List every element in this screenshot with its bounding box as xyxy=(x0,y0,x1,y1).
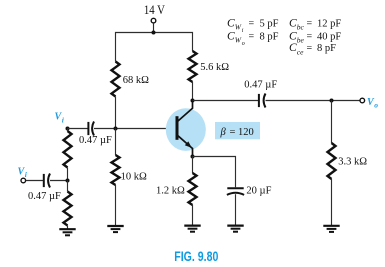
svg-text:68 kΩ: 68 kΩ xyxy=(123,75,149,86)
junction divider node xyxy=(66,179,70,183)
svg-text:W: W xyxy=(235,23,242,32)
ground (source divider) xyxy=(59,229,75,235)
svg-text:C: C xyxy=(289,30,297,42)
svg-text:3.3 kΩ: 3.3 kΩ xyxy=(338,157,367,168)
svg-text:be: be xyxy=(297,36,305,45)
resistor R1 68 kOhm xyxy=(112,62,150,97)
ground (R2) xyxy=(107,226,123,232)
wire RL to ground xyxy=(331,179,333,226)
capacitor Cs 0.47 uF (source) xyxy=(28,174,61,203)
resistor RL 3.3 kOhm xyxy=(328,143,368,179)
wire bypass cap to ground xyxy=(235,194,237,225)
resistor source divider upper xyxy=(64,129,72,181)
wire source terminal to source cap xyxy=(26,180,44,182)
svg-text:i: i xyxy=(62,116,65,125)
wire base node down xyxy=(115,129,117,156)
svg-text:1.2 kΩ: 1.2 kΩ xyxy=(156,186,185,197)
svg-text:8 pF: 8 pF xyxy=(260,31,279,42)
svg-text:=: = xyxy=(249,18,255,29)
value label Cbe = 40 pF xyxy=(289,30,341,44)
svg-text:0.47 µF: 0.47 µF xyxy=(28,191,61,202)
svg-text:=: = xyxy=(307,43,313,54)
wire RC bottom to collector node xyxy=(192,82,194,101)
wire RE to ground xyxy=(192,205,194,226)
wire Vi node to coupling cap xyxy=(68,128,89,130)
junction collector node xyxy=(191,99,195,103)
svg-text:C: C xyxy=(227,17,235,29)
value label CWo = 8 pF xyxy=(227,30,279,47)
svg-text:o: o xyxy=(374,101,378,110)
svg-text:FIG. 9.80: FIG. 9.80 xyxy=(174,248,218,264)
transistor Q1 highlight circle xyxy=(166,108,206,151)
value label Cce = 8 pF xyxy=(289,42,336,56)
ground (RL) xyxy=(323,226,339,232)
svg-text:=: = xyxy=(307,31,313,42)
resistor RC 5.6 kOhm xyxy=(189,51,230,82)
value label CWi = 5 pF xyxy=(227,17,279,34)
wire top supply rail xyxy=(116,33,193,62)
junction supply node xyxy=(152,31,156,35)
wire source cap to divider junction xyxy=(50,180,68,182)
svg-text:5 pF: 5 pF xyxy=(260,18,279,29)
junction output node xyxy=(330,99,334,103)
svg-text:o: o xyxy=(242,41,245,47)
node Vi (top of source divider) xyxy=(55,112,70,131)
svg-text:5.6 kΩ: 5.6 kΩ xyxy=(200,62,229,73)
svg-text:= 120: = 120 xyxy=(230,127,254,138)
source terminal Vi xyxy=(18,167,28,183)
ground (RE) xyxy=(184,226,200,232)
svg-text:W: W xyxy=(235,36,242,45)
svg-text:i: i xyxy=(25,170,28,179)
label beta = 120 xyxy=(215,122,260,139)
wire cap to base xyxy=(94,128,177,130)
junction base node xyxy=(114,127,118,131)
output terminal Vo xyxy=(360,97,378,110)
transistor Q1 xyxy=(177,101,193,157)
svg-text:14 V: 14 V xyxy=(144,2,165,17)
wire output node down xyxy=(331,101,333,144)
svg-text:0.47 µF: 0.47 µF xyxy=(244,79,277,90)
svg-text:C: C xyxy=(289,17,297,29)
value label Cbc = 12 pF xyxy=(289,17,341,31)
ground (CE) xyxy=(227,226,243,232)
capacitor CE 20 uF (bypass) xyxy=(227,186,272,197)
svg-text:i: i xyxy=(242,28,244,34)
resistor source divider lower xyxy=(64,181,72,230)
svg-text:20 µF: 20 µF xyxy=(246,186,271,197)
svg-text:12 pF: 12 pF xyxy=(317,18,341,29)
svg-text:C: C xyxy=(227,30,235,42)
wire R2 to ground xyxy=(115,185,117,226)
wire collector to output cap xyxy=(193,100,259,102)
wire output cap to Vo terminal xyxy=(266,100,360,102)
capacitor Cc 0.47 uF (output coupling) xyxy=(244,79,277,107)
svg-text:bc: bc xyxy=(297,23,305,32)
svg-text:0.47 µF: 0.47 µF xyxy=(79,135,112,146)
wire emitter node down xyxy=(192,157,194,174)
svg-text:β: β xyxy=(220,127,227,138)
svg-text:8 pF: 8 pF xyxy=(317,43,336,54)
supply terminal 14 V xyxy=(144,2,165,32)
svg-text:40 pF: 40 pF xyxy=(317,31,341,42)
svg-text:C: C xyxy=(289,42,297,54)
svg-text:ce: ce xyxy=(297,47,304,56)
resistor RE 1.2 kOhm xyxy=(156,173,197,205)
wire emitter node to bypass cap xyxy=(193,157,236,188)
svg-text:10 kΩ: 10 kΩ xyxy=(121,172,147,183)
svg-text:=: = xyxy=(307,18,313,29)
junction emitter node xyxy=(191,155,195,159)
resistor R2 10 kOhm xyxy=(112,155,147,185)
capacitor CB 0.47 uF (base coupling) xyxy=(79,122,112,147)
wire R1 bottom to base node xyxy=(115,97,117,129)
svg-text:=: = xyxy=(249,31,255,42)
